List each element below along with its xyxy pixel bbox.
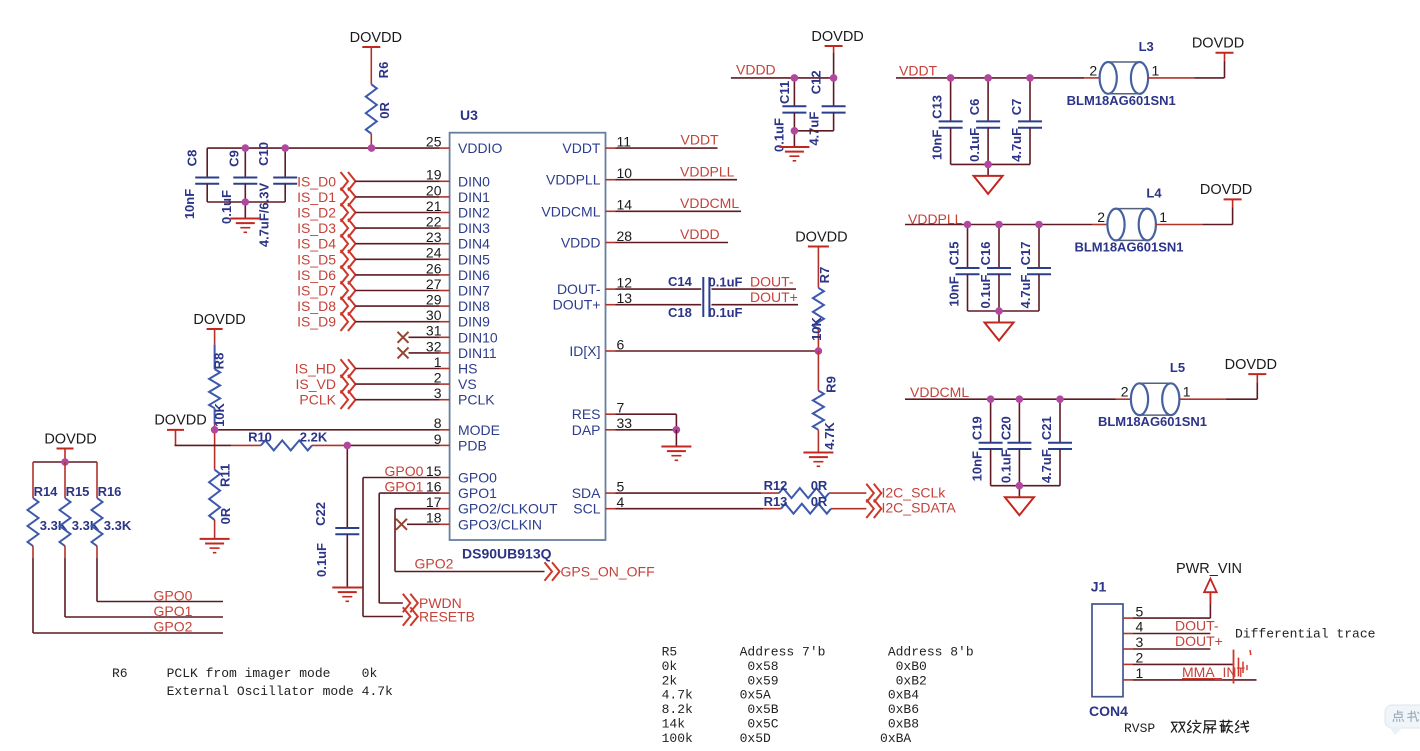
node GPO2 (bottom left) (33, 619, 223, 635)
svg-text:DOVDD: DOVDD (193, 312, 245, 328)
port I2C_SDATA (866, 499, 956, 518)
node GPO1 (bottom left) (65, 603, 223, 619)
svg-text:R11: R11 (218, 464, 233, 487)
resistor R8 10K (209, 329, 227, 430)
svg-text:GPO2/CLKOUT: GPO2/CLKOUT (458, 501, 558, 517)
svg-text:100k 0x5D 0x: 100k 0x5D 0xBA (662, 731, 912, 746)
svg-text:I2C_SDATA: I2C_SDATA (882, 500, 957, 516)
svg-text:DOUT+: DOUT+ (553, 297, 601, 313)
junction dot ID[X] (815, 347, 823, 355)
svg-text:C7: C7 (1009, 99, 1024, 116)
svg-text:MODE: MODE (458, 422, 500, 438)
ground (below R9) (803, 453, 833, 467)
svg-text:C11: C11 (777, 81, 792, 104)
svg-text:C21: C21 (1039, 416, 1054, 440)
svg-text:BLM18AG601SN1: BLM18AG601SN1 (1067, 93, 1176, 108)
svg-text:IS_D2: IS_D2 (297, 205, 336, 221)
port PWDN (403, 594, 462, 613)
svg-text:MMA_INT: MMA_INT (1182, 664, 1245, 680)
svg-text:DOVDD: DOVDD (1200, 182, 1252, 198)
svg-text:DS90UB913Q: DS90UB913Q (462, 546, 552, 562)
svg-text:10nF: 10nF (182, 189, 197, 219)
node DOUT+ (J1 pin 3) (1133, 633, 1223, 649)
svg-text:DIN7: DIN7 (458, 283, 490, 299)
svg-text:R8: R8 (212, 353, 227, 370)
svg-text:VDDIO: VDDIO (458, 140, 502, 156)
node GPO0 (pin 15) (363, 463, 440, 479)
label Differential trace (1235, 627, 1375, 642)
node VDDCML (filter rail) (905, 384, 1131, 400)
svg-text:IS_D1: IS_D1 (297, 189, 336, 205)
svg-text:10K: 10K (809, 316, 824, 340)
svg-text:BLM18AG601SN1: BLM18AG601SN1 (1074, 240, 1183, 255)
svg-text:2: 2 (434, 370, 442, 386)
wire filter bottom rail (968, 311, 1040, 323)
svg-text:3.3K: 3.3K (72, 518, 100, 533)
table R5 addresses (662, 645, 974, 746)
ground (below DAP) (661, 430, 691, 461)
svg-text:RVSP: RVSP (1124, 721, 1155, 736)
node VDDD (pin 28) (616, 226, 729, 242)
junction dot R8/MODE (211, 426, 219, 434)
svg-text:RES: RES (572, 406, 601, 422)
svg-text:C12: C12 (809, 70, 824, 94)
node IS_D7 (297, 281, 440, 300)
node IS_D4 (297, 234, 440, 253)
svg-text:1: 1 (1183, 384, 1191, 400)
svg-text:12: 12 (617, 275, 633, 291)
svg-text:C22: C22 (313, 502, 328, 526)
power DOVDD (top, above R6) (350, 30, 402, 47)
svg-text:10K: 10K (212, 402, 227, 426)
svg-text:0k 0x58: 0k 0x58 0xB0 (662, 659, 927, 674)
svg-text:23: 23 (426, 229, 442, 245)
svg-text:Differential trace: Differential trace (1235, 627, 1375, 642)
svg-text:2: 2 (1121, 384, 1129, 400)
svg-text:C19: C19 (970, 416, 985, 440)
svg-text:C18: C18 (668, 305, 692, 320)
svg-text:DIN3: DIN3 (458, 220, 490, 236)
node IS_D6 (297, 266, 440, 285)
svg-text:1: 1 (1136, 665, 1144, 681)
node DOUT- (750, 274, 794, 290)
svg-text:4.7uF: 4.7uF (807, 112, 822, 146)
inductor L4 BLM18AG601SN1 (1074, 186, 1183, 255)
svg-text:10nF: 10nF (947, 276, 962, 306)
svg-text:C6: C6 (967, 99, 982, 116)
svg-text:GPO0: GPO0 (458, 470, 497, 486)
junction dot pullup rail (61, 458, 69, 466)
capacitor C10 4.7uF/6.3V (256, 142, 297, 247)
capacitor C21 4.7uF (1039, 399, 1072, 486)
svg-text:C10: C10 (256, 142, 271, 166)
svg-text:VDDD: VDDD (561, 235, 601, 251)
svg-text:RESETB: RESETB (419, 609, 475, 625)
pin numbers U3 left (426, 134, 442, 526)
svg-text:30: 30 (426, 307, 442, 323)
svg-text:C14: C14 (668, 274, 693, 289)
svg-text:4.7uF: 4.7uF (1009, 128, 1024, 162)
svg-text:DOVDD: DOVDD (811, 29, 863, 45)
label RVSP chinese note (1171, 720, 1248, 733)
svg-text:R16: R16 (98, 484, 122, 499)
svg-text:4.7uF: 4.7uF (1039, 449, 1054, 483)
capacitor C14 0.1uF (616, 274, 797, 317)
capacitor C17 4.7uF (1018, 225, 1051, 312)
svg-text:24: 24 (426, 245, 442, 261)
ground (below C11) (779, 131, 809, 161)
node IS_HD (295, 359, 440, 378)
svg-text:10nF: 10nF (930, 130, 945, 160)
svg-text:C16: C16 (978, 242, 993, 266)
svg-text:0.1uF: 0.1uF (314, 543, 329, 577)
ui badge (click-me bubble) (1385, 705, 1420, 735)
wire C11/C12 bottom (794, 130, 833, 132)
svg-text:VDDPLL: VDDPLL (680, 164, 735, 180)
wire pullup rail (33, 461, 97, 463)
svg-text:C9: C9 (227, 150, 242, 167)
svg-text:21: 21 (426, 198, 442, 214)
svg-text:VDDT: VDDT (562, 140, 601, 156)
svg-text:28: 28 (617, 228, 633, 244)
svg-text:DIN10: DIN10 (458, 329, 498, 345)
resistor R10 2.2K (175, 430, 348, 451)
svg-text:VDDD: VDDD (680, 226, 720, 242)
svg-text:DAP: DAP (572, 422, 601, 438)
wire PDB pin 9 (347, 444, 439, 446)
IC U3 DS90UB913Q body (450, 107, 606, 562)
svg-text:L3: L3 (1139, 39, 1154, 54)
node VDDT (pin 11) (616, 132, 720, 149)
annotation red marks (1182, 650, 1251, 684)
node IS_D9 (297, 312, 440, 331)
svg-text:DOUT+: DOUT+ (750, 289, 798, 305)
svg-text:4.7K: 4.7K (822, 422, 837, 450)
svg-text:R12: R12 (764, 478, 788, 493)
no-connect X pin 31 (398, 332, 440, 343)
svg-text:R10: R10 (248, 430, 272, 445)
ground (below C22) (332, 588, 362, 602)
wire filter bottom rail (991, 486, 1060, 498)
svg-text:GPO2: GPO2 (154, 619, 193, 635)
svg-text:VDDT: VDDT (681, 132, 720, 148)
svg-text:GPO2: GPO2 (415, 556, 454, 572)
svg-text:DIN4: DIN4 (458, 236, 490, 252)
node IS_D2 (297, 203, 440, 222)
wire filter bottom rail (951, 164, 1030, 176)
svg-text:VDDT: VDDT (899, 63, 938, 79)
svg-text:R15: R15 (66, 484, 90, 499)
svg-text:2: 2 (1089, 62, 1097, 78)
svg-text:U3: U3 (460, 107, 478, 123)
svg-text:R6: R6 (376, 62, 391, 79)
no-connect X pin 18 (396, 519, 440, 530)
svg-text:GPO0: GPO0 (385, 463, 424, 479)
node VDDCML (pin 14) (616, 195, 742, 211)
wire RES pin 7 (616, 414, 677, 430)
power ground triangle (1005, 497, 1034, 515)
svg-text:IS_D8: IS_D8 (297, 298, 336, 314)
svg-text:1: 1 (434, 354, 442, 370)
svg-text:DIN5: DIN5 (458, 251, 490, 267)
capacitor C18 0.1uF (616, 305, 799, 320)
node GPO1 (pin 16) (379, 479, 439, 495)
inductor L3 BLM18AG601SN1 (1067, 39, 1176, 108)
capacitor C12 4.7uF (807, 70, 846, 145)
svg-text:4.7uF: 4.7uF (1018, 274, 1033, 308)
wire VDDIO rail (pin 25) (207, 147, 439, 149)
svg-text:7: 7 (617, 400, 625, 416)
wire bead to DOVDD (1179, 374, 1257, 399)
svg-text:BLM18AG601SN1: BLM18AG601SN1 (1098, 414, 1207, 429)
resistor R15 3.3K (60, 462, 100, 617)
wire MODE pin 8 (215, 429, 440, 431)
wire R6 to VDDIO rail (370, 134, 372, 148)
svg-text:DOVDD: DOVDD (795, 229, 847, 245)
svg-text:0.1uF: 0.1uF (978, 274, 993, 308)
wire bead to DOVDD (1156, 199, 1233, 224)
svg-text:IS_HD: IS_HD (295, 361, 336, 377)
svg-text:I2C_SCLk: I2C_SCLk (882, 484, 947, 500)
svg-text:C8: C8 (185, 150, 200, 167)
capacitor C6 0.1uF (967, 78, 1000, 164)
svg-text:0R: 0R (377, 101, 392, 118)
svg-text:1: 1 (1152, 62, 1160, 78)
power DOVDD (left of R10) (154, 413, 206, 446)
svg-text:14: 14 (617, 197, 633, 213)
svg-text:GPO1: GPO1 (458, 485, 497, 501)
svg-text:GPO3/CLKIN: GPO3/CLKIN (458, 516, 542, 532)
junction dots filter rail (947, 74, 1034, 168)
svg-text:15: 15 (426, 463, 442, 479)
svg-text:R9: R9 (824, 376, 839, 393)
svg-text:19: 19 (426, 167, 442, 183)
svg-text:9: 9 (434, 431, 442, 447)
svg-text:11: 11 (617, 134, 632, 150)
junction dot RES/DAP (673, 426, 681, 434)
svg-text:IS_D7: IS_D7 (297, 283, 336, 299)
svg-text:DIN0: DIN0 (458, 173, 490, 189)
svg-text:R5 Address 7'b A: R5 Address 7'b Address 8'b (662, 645, 974, 660)
svg-text:SDA: SDA (572, 485, 601, 501)
capacitor C15 10nF (947, 225, 980, 312)
wire pin16 down to PWDN (379, 493, 403, 603)
svg-text:J1: J1 (1091, 579, 1107, 595)
svg-text:3: 3 (434, 385, 442, 401)
node VDDT (filter rail) (896, 63, 1100, 79)
svg-text:DOUT-: DOUT- (557, 281, 601, 297)
svg-text:VDDD: VDDD (736, 62, 776, 78)
no-connect X pin 32 (398, 347, 440, 358)
svg-text:IS_D9: IS_D9 (297, 314, 336, 330)
node IS_D0 (297, 172, 440, 191)
svg-text:16: 16 (426, 479, 442, 495)
svg-text:32: 32 (426, 338, 442, 354)
pin numbers U3 right (617, 134, 633, 511)
svg-text:DIN9: DIN9 (458, 314, 490, 330)
svg-text:DIN2: DIN2 (458, 205, 490, 221)
resistor R13 0R (616, 494, 867, 514)
svg-text:27: 27 (426, 276, 442, 292)
svg-text:L4: L4 (1146, 186, 1162, 201)
power ground triangle (985, 323, 1014, 341)
svg-text:R13: R13 (764, 494, 788, 509)
capacitor C11 0.1uF (772, 78, 807, 152)
svg-text:PCLK: PCLK (299, 392, 336, 408)
svg-text:C17: C17 (1018, 242, 1033, 266)
svg-text:ID[X]: ID[X] (569, 343, 600, 359)
svg-text:4: 4 (1136, 619, 1144, 635)
junction dots filter rail (964, 221, 1043, 315)
svg-text:VDDCML: VDDCML (910, 384, 969, 400)
junction dot R10/C22/PDB (344, 442, 352, 450)
wire J1 pin 2 (1133, 663, 1233, 665)
svg-text:PCLK: PCLK (458, 392, 495, 408)
svg-text:10nF: 10nF (970, 451, 985, 481)
resistor R12 0R (616, 478, 867, 498)
resistor R16 3.3K (92, 462, 132, 602)
svg-text:DOVDD: DOVDD (1225, 357, 1277, 373)
svg-text:C20: C20 (998, 416, 1013, 440)
resistor R6 0R (366, 47, 392, 134)
port RESETB (403, 607, 475, 626)
node IS_VD (296, 375, 440, 394)
svg-text:29: 29 (426, 292, 442, 308)
svg-text:DOUT-: DOUT- (1175, 618, 1219, 634)
svg-text:VS: VS (458, 376, 477, 392)
svg-text:31: 31 (426, 323, 442, 339)
wire DAP pin 33 (616, 429, 677, 431)
power DOVDD (above R8) (193, 312, 245, 329)
svg-text:26: 26 (426, 260, 442, 276)
svg-text:VDDCML: VDDCML (680, 195, 739, 211)
power DOVDD (filter) (1192, 36, 1244, 53)
junction dots C11/C12 (791, 74, 838, 135)
svg-text:8.2k 0x5B 0: 8.2k 0x5B 0xB6 (662, 702, 919, 717)
svg-text:IS_D5: IS_D5 (297, 251, 336, 267)
svg-text:L5: L5 (1170, 360, 1185, 375)
connector J1 CON4 (1089, 579, 1144, 719)
svg-text:4: 4 (617, 494, 625, 510)
port I2C_SCLk (866, 484, 946, 503)
ground (below R11) (200, 539, 230, 553)
svg-text:CON4: CON4 (1089, 703, 1128, 719)
svg-text:33: 33 (617, 415, 633, 431)
svg-text:DOUT-: DOUT- (750, 274, 794, 290)
wire cap bottom rail (207, 201, 285, 203)
svg-text:VDDPLL: VDDPLL (546, 172, 601, 188)
inductor L5 BLM18AG601SN1 (1098, 360, 1207, 429)
wire ID[X] pin 6 (616, 350, 819, 352)
svg-text:C13: C13 (930, 95, 945, 119)
svg-text:VDDCML: VDDCML (541, 203, 600, 219)
capacitor C19 10nF (970, 399, 1003, 486)
resistor R7 10K (809, 247, 832, 352)
svg-text:1: 1 (1159, 209, 1167, 225)
node IS_D5 (297, 250, 440, 269)
svg-text:IS_VD: IS_VD (296, 376, 336, 392)
svg-text:0R: 0R (218, 507, 233, 524)
svg-text:20: 20 (426, 182, 442, 198)
svg-text:HS: HS (458, 361, 477, 377)
svg-text:DOVDD: DOVDD (154, 413, 206, 429)
wire pin15 down to RESETB (363, 478, 403, 617)
svg-text:GPS_ON_OFF: GPS_ON_OFF (561, 564, 655, 580)
capacitor C7 4.7uF (1009, 78, 1042, 164)
node GPO2 (pin 17 net) (415, 556, 454, 572)
svg-text:22: 22 (426, 214, 442, 230)
svg-text:3: 3 (1136, 634, 1144, 650)
capacitor C16 0.1uF (978, 225, 1011, 312)
svg-text:DOVDD: DOVDD (44, 431, 96, 447)
ground (below C9) (230, 202, 260, 232)
svg-text:IS_D0: IS_D0 (297, 173, 336, 189)
svg-text:DOUT+: DOUT+ (1175, 633, 1223, 649)
node IS_D3 (297, 219, 440, 238)
svg-text:4.7uF/6.3V: 4.7uF/6.3V (257, 183, 272, 248)
svg-text:3.3K: 3.3K (104, 518, 132, 533)
resistor R9 4.7K (813, 351, 839, 452)
node VDDD (C11 rail) (731, 62, 834, 78)
svg-text:GPO1: GPO1 (385, 479, 424, 495)
resistor R11 0R (209, 430, 233, 539)
svg-text:DOVDD: DOVDD (350, 30, 402, 46)
svg-text:C15: C15 (947, 242, 962, 266)
svg-text:2.2K: 2.2K (300, 430, 328, 445)
svg-text:5: 5 (1136, 603, 1144, 619)
svg-text:DIN6: DIN6 (458, 267, 490, 283)
svg-text:PDB: PDB (458, 437, 487, 453)
svg-text:DIN8: DIN8 (458, 298, 490, 314)
node VDDPLL (pin 10) (616, 164, 738, 180)
svg-text:0.1uF: 0.1uF (967, 128, 982, 162)
power ground triangle (974, 176, 1003, 194)
node PCLK (299, 390, 439, 409)
power DOVDD (above C12) (811, 29, 863, 77)
port GPS_ON_OFF (545, 562, 655, 581)
svg-text:IS_D4: IS_D4 (297, 236, 336, 252)
note R6 modes (112, 666, 393, 699)
junction dots filter rail (987, 395, 1064, 489)
power DOVDD (above R7) (795, 229, 847, 246)
node DOUT+ (750, 289, 798, 305)
label RVSP (1124, 721, 1155, 736)
svg-text:2k 0x59: 2k 0x59 0xB2 (662, 673, 927, 688)
power DOVDD (above R15) (44, 431, 96, 462)
U3 pin stubs (440, 148, 616, 524)
node MMA_INT (J1 pin 1) (1133, 664, 1257, 680)
svg-text:PWR_VIN: PWR_VIN (1176, 561, 1242, 577)
power PWR_VIN arrow (1176, 561, 1242, 604)
svg-text:18: 18 (426, 510, 442, 526)
svg-text:0R: 0R (811, 494, 828, 509)
svg-text:DIN1: DIN1 (458, 189, 490, 205)
junction dots VDDIO rail (242, 144, 376, 206)
svg-text:25: 25 (426, 134, 442, 150)
svg-text:DIN11: DIN11 (458, 345, 497, 361)
capacitor C9 0.1uF (219, 148, 257, 224)
svg-text:10: 10 (617, 165, 633, 181)
svg-text:17: 17 (426, 494, 442, 510)
svg-text:0R: 0R (811, 478, 828, 493)
svg-text:5: 5 (617, 479, 625, 495)
wire J1 pin5 to PWR_VIN (1133, 592, 1210, 618)
svg-text:R14: R14 (34, 484, 59, 499)
capacitor C13 10nF (930, 78, 963, 164)
svg-text:DOVDD: DOVDD (1192, 36, 1244, 52)
svg-text:0.1uF: 0.1uF (709, 305, 743, 320)
svg-text:External Oscillator mode 4.7k: External Oscillator mode 4.7k (112, 684, 393, 699)
